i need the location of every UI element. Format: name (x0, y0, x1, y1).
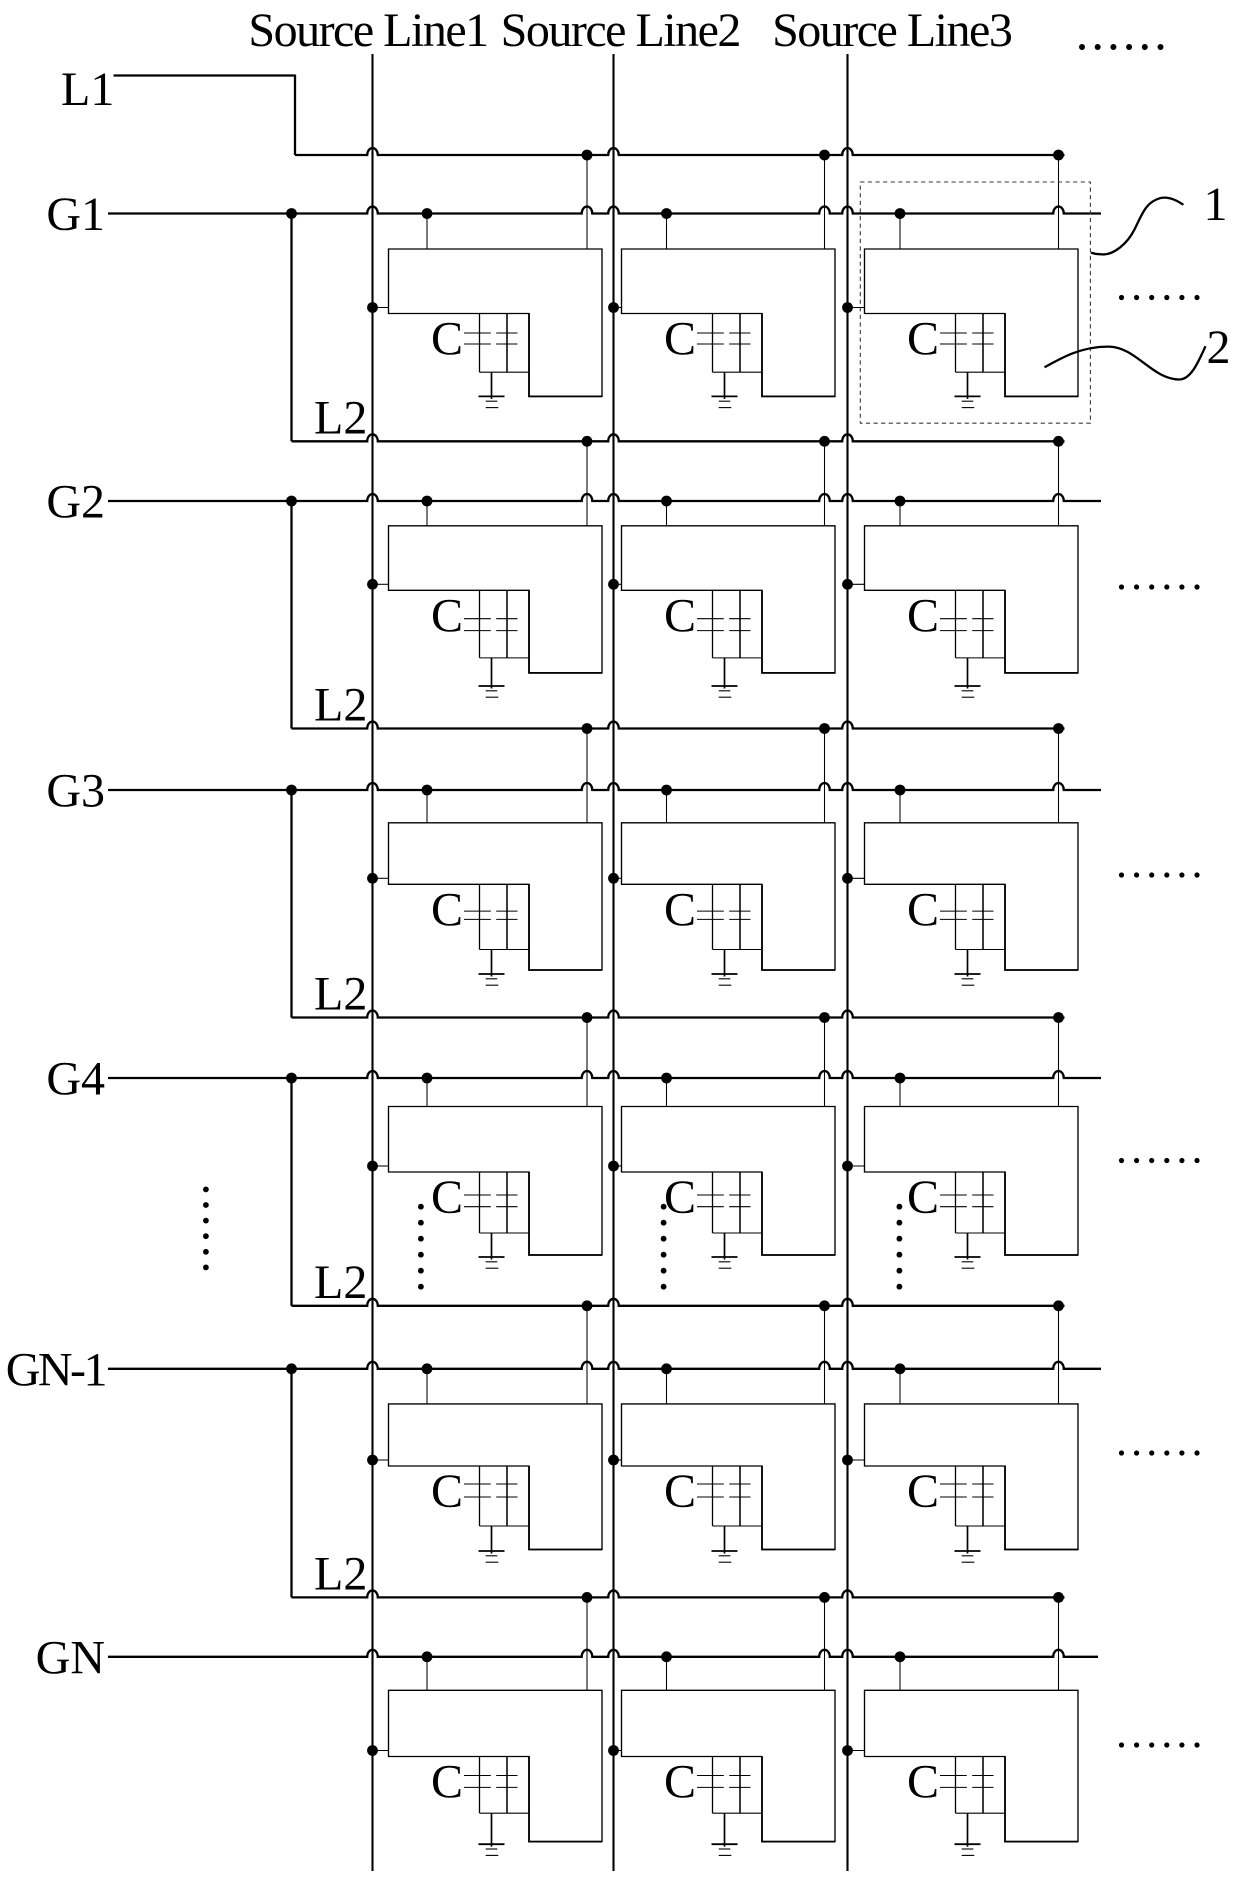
pixel electrode outline row 5 column 2 (622, 1404, 836, 1550)
ground stub wire row 3 column 2 (724, 950, 726, 977)
source contact tick wire row 3 column 1 (373, 877, 389, 879)
ellipsis dots right of row 2 (more columns) (1119, 584, 1200, 589)
ground stub wire row 2 column 1 (491, 658, 493, 689)
junction dot G4 / TFT gate stub column 3 (895, 1073, 906, 1084)
capacitor C row 4 column 2 left lead (712, 1172, 714, 1233)
svg-text:C: C (907, 883, 939, 936)
source contact tick wire row 1 column 3 (848, 307, 865, 309)
ground symbol row 4 column 1 (479, 1257, 505, 1268)
junction dot G2 / TFT gate stub column 1 (422, 496, 433, 507)
feed wire row 1 column 2 (from line above to pixel electrode) (824, 155, 826, 249)
pixel electrode outline row 3 column 2 (622, 823, 836, 970)
junction dot GN-1 / L2 branch (286, 1363, 297, 1374)
ground stub wire row 1 column 1 (491, 372, 493, 399)
junction dot L2 row 2 / feed wire column 2 (819, 723, 830, 734)
source line 1 (vertical bus) (371, 54, 373, 1871)
svg-text:C: C (907, 313, 939, 366)
svg-text:C: C (431, 589, 463, 642)
junction dot L1 / feed wire column 1 (582, 150, 593, 161)
source contact tick wire row 1 column 2 (614, 307, 622, 309)
pixel electrode outline row 6 column 2 (622, 1690, 836, 1841)
ground stub wire row 6 column 3 (967, 1813, 969, 1847)
svg-text:C: C (907, 1465, 939, 1518)
TFT gate stub wire row 5 column 1 (426, 1369, 428, 1404)
junction dot L1 / feed wire column 2 (819, 150, 830, 161)
ground symbol row 2 column 2 (712, 686, 738, 697)
gate line G3 (hops over source lines and feed wires) (108, 783, 1101, 790)
source contact dot row 2 column 1 (367, 579, 378, 590)
source contact dot row 1 column 3 (842, 302, 853, 313)
svg-text:G1: G1 (46, 188, 105, 241)
capacitor C row 1 column 1 bottom plate (464, 343, 518, 345)
capacitor bottom wire row 6 column 1 (480, 1812, 530, 1814)
junction dot G2 / L2 branch (286, 496, 297, 507)
ground symbol row 5 column 3 (955, 1551, 981, 1562)
capacitor C row 1 column 3 top plate (940, 332, 994, 334)
junction dot G1 / TFT gate stub column 1 (422, 208, 433, 219)
ellipsis dots right of row 5 (more columns) (1119, 1450, 1200, 1455)
capacitor bottom wire row 5 column 2 (713, 1525, 763, 1527)
capacitor bottom wire row 3 column 3 (956, 949, 1006, 951)
svg-text:C: C (664, 1756, 696, 1809)
ground symbol row 1 column 1 (479, 396, 505, 407)
feed wire row 6 column 1 (from line above to pixel electrode) (586, 1597, 588, 1690)
capacitor C row 3 column 3 right lead (982, 884, 984, 949)
capacitor C row 1 column 2 bottom plate (697, 343, 751, 345)
junction dot G3 / L2 branch (286, 785, 297, 796)
capacitor C row 2 column 2 top plate (697, 618, 751, 620)
capacitor C row 3 column 1 left lead (479, 884, 481, 949)
vertical ellipsis dots column 3 (more rows) (897, 1204, 903, 1290)
wire G4 branch down to L2 row 4 (290, 1078, 292, 1306)
junction dot G3 / TFT gate stub column 3 (895, 785, 906, 796)
svg-text:G3: G3 (46, 765, 105, 818)
capacitor bottom wire row 4 column 3 (956, 1232, 1006, 1234)
feed wire row 4 column 1 (from line above to pixel electrode) (586, 1018, 588, 1107)
junction dot GN-1 / TFT gate stub column 1 (422, 1363, 433, 1374)
junction dot L2 row 5 / feed wire column 1 (582, 1592, 593, 1603)
junction dot L2 row 3 / feed wire column 1 (582, 1012, 593, 1023)
feed wire row 2 column 1 (from line above to pixel electrode) (586, 441, 588, 526)
pixel electrode outline row 1 column 1 (389, 249, 603, 396)
capacitor C row 4 column 1 left lead (479, 1172, 481, 1233)
capacitor C row 3 column 3 top plate (940, 910, 994, 912)
svg-text:C: C (431, 1171, 463, 1224)
gate line GN (hops over source lines and feed wires) (108, 1650, 1098, 1657)
capacitor C row 1 column 3 left lead (955, 314, 957, 373)
junction dot G3 / TFT gate stub column 2 (661, 785, 672, 796)
svg-text:C: C (664, 1171, 696, 1224)
junction dot L2 row 2 / feed wire column 3 (1053, 723, 1064, 734)
capacitor C row 1 column 3 bottom plate (940, 343, 994, 345)
TFT gate stub wire row 3 column 2 (666, 790, 668, 823)
source contact dot row 4 column 1 (367, 1161, 378, 1172)
source contact tick wire row 4 column 3 (848, 1165, 865, 1167)
junction dot L2 row 1 / feed wire column 2 (819, 436, 830, 447)
TFT gate stub wire row 6 column 3 (899, 1657, 901, 1691)
feed wire row 5 column 3 (from line above to pixel electrode) (1058, 1306, 1060, 1404)
capacitor C row 4 column 1 bottom plate (464, 1206, 518, 1208)
ellipsis dots right of row 1 (more columns) (1119, 295, 1200, 300)
ground stub wire row 3 column 1 (491, 950, 493, 977)
source contact tick wire row 2 column 3 (848, 583, 865, 585)
svg-text:C: C (664, 589, 696, 642)
source contact tick wire row 3 column 2 (614, 877, 622, 879)
capacitor C row 3 column 2 left lead (712, 884, 714, 949)
ground symbol row 6 column 3 (955, 1844, 981, 1855)
capacitor C row 3 column 1 top plate (464, 910, 518, 912)
source contact tick wire row 6 column 2 (614, 1750, 622, 1752)
TFT gate stub wire row 2 column 3 (899, 501, 901, 526)
wire L1 horizontal upper segment (114, 74, 296, 76)
feed wire row 1 column 3 (from line above to pixel electrode) (1058, 155, 1060, 249)
ground symbol row 1 column 2 (712, 396, 738, 407)
capacitor C row 5 column 2 left lead (712, 1466, 714, 1526)
ellipsis dots top right (more source lines) (1079, 44, 1164, 50)
source contact dot row 5 column 2 (608, 1455, 619, 1466)
capacitor bottom wire row 4 column 1 (480, 1232, 530, 1234)
vertical ellipsis dots column 1 (more rows) (418, 1204, 424, 1290)
capacitor bottom wire row 1 column 3 (956, 371, 1006, 373)
capacitor C row 6 column 2 bottom plate (697, 1786, 751, 1788)
leader curve to label 1 (1091, 198, 1183, 255)
pixel electrode outline row 5 column 1 (389, 1404, 603, 1550)
source contact dot row 2 column 2 (608, 579, 619, 590)
capacitor C row 2 column 2 bottom plate (697, 630, 751, 632)
capacitor C row 5 column 3 right lead (982, 1466, 984, 1526)
wire L2 row 3 horizontal (hops over source lines) (292, 1011, 1065, 1018)
feed wire row 6 column 3 (from line above to pixel electrode) (1058, 1597, 1060, 1690)
capacitor C row 2 column 2 left lead (712, 590, 714, 658)
capacitor C row 5 column 1 top plate (464, 1483, 518, 1485)
pixel electrode outline row 6 column 3 (865, 1690, 1079, 1841)
pixel electrode outline row 3 column 3 (865, 823, 1079, 970)
feed wire row 5 column 1 (from line above to pixel electrode) (586, 1306, 588, 1404)
wire G3 branch down to L2 row 3 (290, 790, 292, 1018)
capacitor C row 5 column 1 left lead (479, 1466, 481, 1526)
capacitor C row 4 column 2 right lead (739, 1172, 741, 1233)
ground stub wire row 6 column 1 (491, 1813, 493, 1847)
wire L2 row 2 horizontal (hops over source lines) (292, 722, 1065, 729)
svg-text:Source Line3: Source Line3 (772, 4, 1012, 57)
junction dot GN-1 / TFT gate stub column 2 (661, 1363, 672, 1374)
source contact tick wire row 3 column 3 (848, 877, 865, 879)
capacitor bottom wire row 2 column 3 (956, 657, 1006, 659)
capacitor C row 6 column 1 right lead (506, 1757, 508, 1814)
capacitor C row 4 column 2 bottom plate (697, 1206, 751, 1208)
ground symbol row 3 column 1 (479, 974, 505, 985)
source contact dot row 5 column 1 (367, 1455, 378, 1466)
source contact tick wire row 1 column 1 (373, 307, 389, 309)
TFT gate stub wire row 3 column 1 (426, 790, 428, 823)
dashed box around pixel unit (row 1 column 3) (860, 182, 1090, 423)
svg-text:C: C (664, 1465, 696, 1518)
source contact dot row 1 column 2 (608, 302, 619, 313)
capacitor bottom wire row 1 column 2 (713, 371, 763, 373)
capacitor C row 1 column 2 left lead (712, 314, 714, 373)
source contact tick wire row 4 column 2 (614, 1165, 622, 1167)
source contact tick wire row 4 column 1 (373, 1165, 389, 1167)
svg-text:L2: L2 (314, 968, 367, 1021)
capacitor C row 1 column 1 left lead (479, 314, 481, 373)
ellipsis dots right of row 4 (more columns) (1119, 1158, 1200, 1163)
capacitor C row 4 column 3 top plate (940, 1194, 994, 1196)
ground stub wire row 6 column 2 (724, 1813, 726, 1847)
svg-text:C: C (664, 883, 696, 936)
pixel electrode outline row 4 column 2 (622, 1107, 836, 1256)
source line 3 (vertical bus) (846, 54, 848, 1871)
wire L2 row 5 horizontal (hops over source lines) (292, 1590, 1065, 1597)
ground stub wire row 2 column 2 (724, 658, 726, 689)
svg-text:L2: L2 (314, 1547, 367, 1600)
TFT gate stub wire row 6 column 1 (426, 1657, 428, 1691)
capacitor C row 6 column 3 right lead (982, 1757, 984, 1814)
ground symbol row 2 column 1 (479, 686, 505, 697)
source contact dot row 3 column 3 (842, 873, 853, 884)
junction dot GN-1 / TFT gate stub column 3 (895, 1363, 906, 1374)
ellipsis dots right of row 3 (more columns) (1119, 872, 1200, 877)
capacitor C row 6 column 2 right lead (739, 1757, 741, 1814)
svg-text:L2: L2 (314, 679, 367, 732)
ground symbol row 5 column 2 (712, 1551, 738, 1562)
svg-text:L2: L2 (314, 1256, 367, 1309)
junction dot G2 / TFT gate stub column 2 (661, 496, 672, 507)
wire G1 branch down to L2 row 1 (290, 214, 292, 442)
ground stub wire row 2 column 3 (967, 658, 969, 689)
capacitor C row 4 column 1 right lead (506, 1172, 508, 1233)
svg-text:C: C (907, 1171, 939, 1224)
feed wire row 3 column 3 (from line above to pixel electrode) (1058, 729, 1060, 823)
junction dot GN / TFT gate stub column 3 (895, 1651, 906, 1662)
ground symbol row 1 column 3 (955, 396, 981, 407)
pixel electrode outline row 2 column 3 (865, 526, 1079, 673)
pixel electrode outline row 2 column 1 (389, 526, 603, 673)
pixel electrode outline row 3 column 1 (389, 823, 603, 970)
TFT gate stub wire row 2 column 1 (426, 501, 428, 526)
capacitor C row 4 column 1 top plate (464, 1194, 518, 1196)
capacitor bottom wire row 3 column 2 (713, 949, 763, 951)
junction dot GN / TFT gate stub column 1 (422, 1651, 433, 1662)
TFT gate stub wire row 5 column 3 (899, 1369, 901, 1404)
capacitor C row 2 column 1 top plate (464, 618, 518, 620)
junction dot L2 row 5 / feed wire column 3 (1053, 1592, 1064, 1603)
capacitor C row 1 column 2 right lead (739, 314, 741, 373)
capacitor C row 1 column 1 right lead (506, 314, 508, 373)
leader curve to label 2 (1045, 346, 1206, 379)
ground stub wire row 5 column 1 (491, 1526, 493, 1554)
wire L2 row 4 horizontal (hops over source lines) (292, 1299, 1065, 1306)
source contact dot row 4 column 3 (842, 1161, 853, 1172)
TFT gate stub wire row 2 column 2 (666, 501, 668, 526)
capacitor C row 6 column 1 top plate (464, 1775, 518, 1777)
svg-text:C: C (431, 1756, 463, 1809)
pixel electrode outline row 6 column 1 (389, 1690, 603, 1841)
pixel electrode outline row 4 column 3 (865, 1107, 1079, 1256)
svg-text:Source Line2: Source Line2 (501, 4, 740, 57)
ground symbol row 5 column 1 (479, 1551, 505, 1562)
svg-text:C: C (431, 883, 463, 936)
svg-text:C: C (907, 589, 939, 642)
svg-text:C: C (431, 1465, 463, 1518)
junction dot G4 / TFT gate stub column 2 (661, 1073, 672, 1084)
capacitor bottom wire row 6 column 3 (956, 1812, 1006, 1814)
source contact tick wire row 5 column 1 (373, 1459, 389, 1461)
ground symbol row 2 column 3 (955, 686, 981, 697)
svg-text:C: C (431, 313, 463, 366)
junction dot G1 / TFT gate stub column 3 (895, 208, 906, 219)
junction dot G1 / TFT gate stub column 2 (661, 208, 672, 219)
capacitor C row 4 column 3 left lead (955, 1172, 957, 1233)
capacitor C row 2 column 1 bottom plate (464, 630, 518, 632)
capacitor C row 2 column 1 right lead (506, 590, 508, 658)
capacitor bottom wire row 5 column 3 (956, 1525, 1006, 1527)
pixel electrode outline row 1 column 3 (865, 249, 1079, 396)
gate line GN-1 (hops over source lines and feed wires) (108, 1362, 1101, 1369)
svg-text:C: C (664, 313, 696, 366)
svg-text:L1: L1 (61, 63, 114, 116)
svg-text:C: C (907, 1756, 939, 1809)
TFT gate stub wire row 4 column 1 (426, 1078, 428, 1107)
capacitor C row 4 column 3 right lead (982, 1172, 984, 1233)
wire L1 vertical step (294, 75, 296, 156)
junction dot L2 row 1 / feed wire column 1 (582, 436, 593, 447)
capacitor C row 1 column 1 top plate (464, 332, 518, 334)
ground symbol row 3 column 2 (712, 974, 738, 985)
capacitor C row 6 column 3 left lead (955, 1757, 957, 1814)
TFT gate stub wire row 1 column 2 (666, 214, 668, 250)
source contact tick wire row 2 column 2 (614, 583, 622, 585)
junction dot G1 / L2 branch (286, 208, 297, 219)
capacitor C row 3 column 2 right lead (739, 884, 741, 949)
svg-text:G2: G2 (46, 476, 105, 529)
pixel electrode outline row 4 column 1 (389, 1107, 603, 1256)
capacitor bottom wire row 3 column 1 (480, 949, 530, 951)
svg-text:GN-1: GN-1 (6, 1343, 106, 1396)
wire L1 horizontal main segment (hops over source lines) (295, 148, 1065, 155)
capacitor C row 5 column 1 bottom plate (464, 1496, 518, 1498)
feed wire row 2 column 3 (from line above to pixel electrode) (1058, 441, 1060, 526)
capacitor C row 3 column 3 bottom plate (940, 918, 994, 920)
ground symbol row 4 column 3 (955, 1257, 981, 1268)
capacitor C row 3 column 3 left lead (955, 884, 957, 949)
capacitor C row 5 column 1 right lead (506, 1466, 508, 1526)
ground stub wire row 1 column 2 (724, 372, 726, 399)
svg-text:G4: G4 (46, 1053, 105, 1106)
ground stub wire row 3 column 3 (967, 950, 969, 977)
ellipsis dots right of row 6 (more columns) (1119, 1742, 1200, 1747)
junction dot G4 / L2 branch (286, 1073, 297, 1084)
capacitor C row 6 column 1 left lead (479, 1757, 481, 1814)
capacitor bottom wire row 5 column 1 (480, 1525, 530, 1527)
capacitor C row 5 column 2 bottom plate (697, 1496, 751, 1498)
capacitor C row 3 column 1 bottom plate (464, 918, 518, 920)
pixel electrode outline row 5 column 3 (865, 1404, 1079, 1550)
junction dot L2 row 5 / feed wire column 2 (819, 1592, 830, 1603)
capacitor C row 3 column 1 right lead (506, 884, 508, 949)
capacitor C row 5 column 2 top plate (697, 1483, 751, 1485)
capacitor C row 6 column 3 top plate (940, 1775, 994, 1777)
junction dot GN / TFT gate stub column 2 (661, 1651, 672, 1662)
ground stub wire row 4 column 2 (724, 1233, 726, 1260)
junction dot L2 row 1 / feed wire column 3 (1053, 436, 1064, 447)
capacitor C row 5 column 3 bottom plate (940, 1496, 994, 1498)
source contact dot row 6 column 2 (608, 1745, 619, 1756)
pixel electrode outline row 2 column 2 (622, 526, 836, 673)
gate line G1 (hops over source lines and feed wires) (108, 206, 1101, 213)
TFT gate stub wire row 1 column 1 (426, 214, 428, 250)
junction dot L2 row 4 / feed wire column 3 (1053, 1300, 1064, 1311)
capacitor C row 2 column 3 right lead (982, 590, 984, 658)
junction dot G3 / TFT gate stub column 1 (422, 785, 433, 796)
source contact tick wire row 6 column 1 (373, 1750, 389, 1752)
capacitor C row 4 column 2 top plate (697, 1194, 751, 1196)
capacitor C row 5 column 3 top plate (940, 1483, 994, 1485)
pixel electrode outline row 1 column 2 (622, 249, 836, 396)
capacitor C row 2 column 3 top plate (940, 618, 994, 620)
source contact dot row 3 column 1 (367, 873, 378, 884)
junction dot G2 / TFT gate stub column 3 (895, 496, 906, 507)
ground stub wire row 5 column 2 (724, 1526, 726, 1554)
vertical ellipsis dots left margin (more rows) (203, 1187, 209, 1271)
capacitor C row 2 column 3 bottom plate (940, 630, 994, 632)
ground symbol row 6 column 1 (479, 1844, 505, 1855)
capacitor C row 2 column 1 left lead (479, 590, 481, 658)
ground stub wire row 1 column 3 (967, 372, 969, 399)
wire L2 row 1 horizontal (hops over source lines) (292, 434, 1065, 441)
junction dot L2 row 4 / feed wire column 2 (819, 1300, 830, 1311)
wire G2 branch down to L2 row 2 (290, 501, 292, 729)
capacitor bottom wire row 1 column 1 (480, 371, 530, 373)
ground stub wire row 5 column 3 (967, 1526, 969, 1554)
source contact dot row 2 column 3 (842, 579, 853, 590)
feed wire row 4 column 3 (from line above to pixel electrode) (1058, 1018, 1060, 1107)
capacitor bottom wire row 2 column 2 (713, 657, 763, 659)
TFT gate stub wire row 4 column 2 (666, 1078, 668, 1107)
source contact dot row 6 column 1 (367, 1745, 378, 1756)
svg-text:L2: L2 (314, 391, 367, 444)
gate line G2 (hops over source lines and feed wires) (108, 494, 1101, 501)
source line 2 (vertical bus) (612, 54, 614, 1871)
capacitor C row 2 column 2 right lead (739, 590, 741, 658)
capacitor bottom wire row 2 column 1 (480, 657, 530, 659)
TFT gate stub wire row 5 column 2 (666, 1369, 668, 1404)
source contact tick wire row 2 column 1 (373, 583, 389, 585)
source contact dot row 4 column 2 (608, 1161, 619, 1172)
ground symbol row 4 column 2 (712, 1257, 738, 1268)
feed wire row 4 column 2 (from line above to pixel electrode) (824, 1018, 826, 1107)
ground symbol row 3 column 3 (955, 974, 981, 985)
ground stub wire row 4 column 1 (491, 1233, 493, 1260)
capacitor C row 6 column 3 bottom plate (940, 1786, 994, 1788)
junction dot L2 row 3 / feed wire column 2 (819, 1012, 830, 1023)
capacitor C row 6 column 2 top plate (697, 1775, 751, 1777)
feed wire row 1 column 1 (from line above to pixel electrode) (586, 155, 588, 249)
feed wire row 6 column 2 (from line above to pixel electrode) (824, 1597, 826, 1690)
capacitor C row 1 column 3 right lead (982, 314, 984, 373)
source contact dot row 5 column 3 (842, 1455, 853, 1466)
svg-text:2: 2 (1207, 321, 1231, 374)
capacitor C row 3 column 2 top plate (697, 910, 751, 912)
source contact tick wire row 6 column 3 (848, 1750, 865, 1752)
feed wire row 3 column 1 (from line above to pixel electrode) (586, 729, 588, 823)
feed wire row 2 column 2 (from line above to pixel electrode) (824, 441, 826, 526)
TFT gate stub wire row 3 column 3 (899, 790, 901, 823)
capacitor C row 6 column 1 bottom plate (464, 1786, 518, 1788)
source contact tick wire row 5 column 3 (848, 1459, 865, 1461)
wire GN-1 branch down to L2 row 5 (290, 1369, 292, 1598)
source contact dot row 6 column 3 (842, 1745, 853, 1756)
capacitor C row 3 column 2 bottom plate (697, 918, 751, 920)
